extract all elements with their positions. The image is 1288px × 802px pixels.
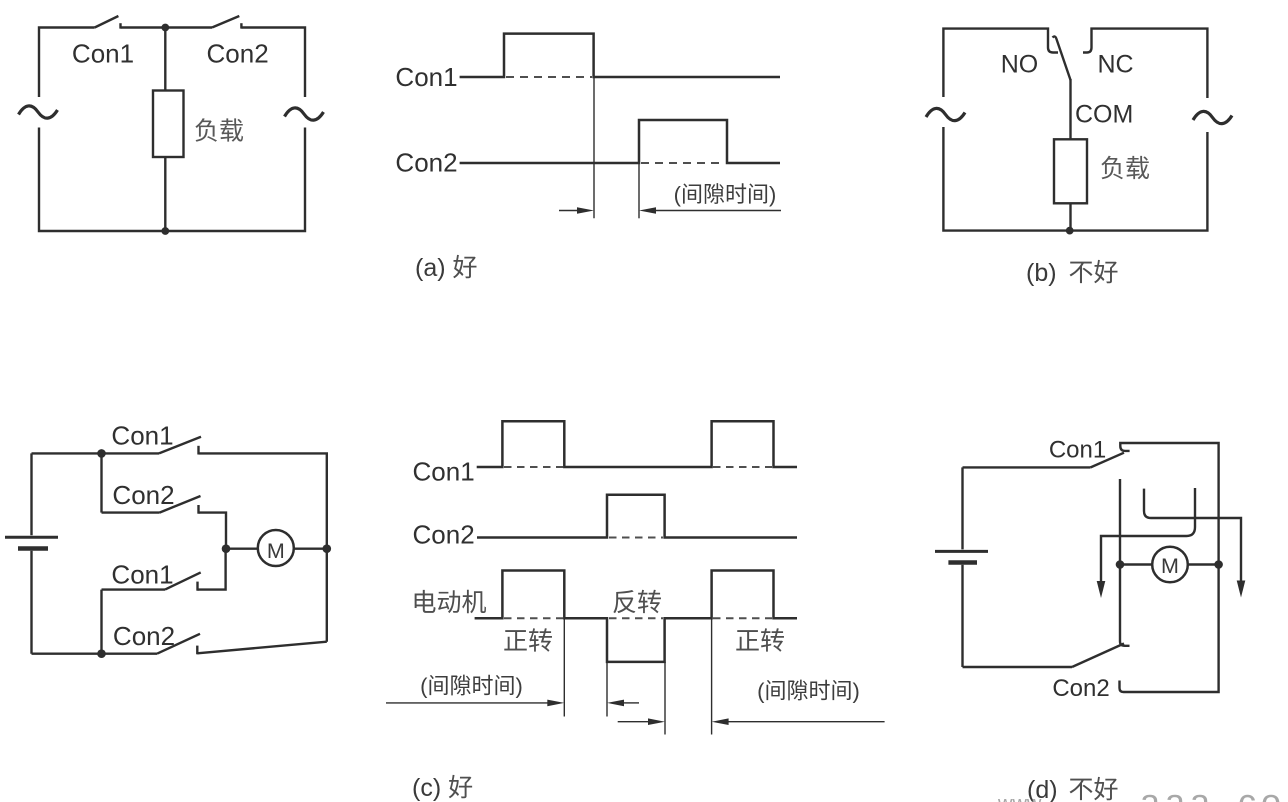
svg-text:电动机: 电动机 [411,589,486,617]
wire: Con2 lower slanted segment to right rail (c) [197,642,326,654]
wire: Con1 upper to right rail + right side down to motor (c) [199,453,327,548]
svg-text:Con1: Con1 [395,62,457,92]
arrowhead down left (d) [1097,581,1106,598]
switch Con1 lower (c) [165,572,201,590]
extension line at motor pulse1 fall (timing c) [563,618,565,716]
wire: crossing wire B - right U arm, curve, across left, down to left arrow (d) [1101,488,1195,582]
wire: motor to right rail (d) [1188,563,1219,565]
svg-text:NO: NO [1001,51,1039,79]
svg-text:Con2: Con2 [395,148,457,178]
svg-text:M: M [1161,554,1179,578]
svg-text:NC: NC [1097,51,1133,79]
svg-text:(间隙时间): (间隙时间) [757,679,860,704]
svg-text:正转: 正转 [503,628,553,656]
svg-text:(间隙时间): (间隙时间) [420,674,523,699]
AC source left (b) [926,108,965,120]
wire: right lower side + bottom (a) [165,128,305,232]
wire: top-left corner of loop (a) [39,28,95,98]
battery positive plate (d) [935,550,988,553]
dashed level inside Con2 pulse (timing a) [641,162,725,164]
wire: middle vertical upper (a) [164,28,166,91]
switch blade NO/NC changeover (b) [1053,36,1071,80]
wire: motor to right rail (c) [293,548,327,550]
wire: Con1 lower branch left part (c) [102,588,166,590]
dashed level over motor reverse pulse (timing c) [609,617,663,619]
battery negative plate (d) [948,560,977,565]
wire: battery top side + top rail (c) [32,453,102,535]
switch Con2 upper (c) [160,496,201,514]
switch Con2 lower (c) [157,634,200,655]
signal trace Con2 (timing c) [477,495,797,538]
wire: Con1 fixed contact hook + top wire + right rail (d) [1120,443,1218,565]
motor M circle (d) [1152,547,1188,583]
wire: Con2 fixed contact L + bottom-right wire + right rail lower (d) [1120,565,1219,693]
dimension arrow pointing left at x=639 + tail line (timing a) [639,207,781,214]
node: bottom junction (b) [1066,227,1074,235]
wire: COM vertical (b) [1069,79,1071,139]
switch Con1 upper (c) [159,437,201,455]
node: motor-left junction (c) [222,544,231,553]
svg-text:Con2: Con2 [413,520,475,550]
svg-text:com: com [1238,781,1288,802]
dashed level inside motor pulse 2 (timing c) [713,617,772,619]
signal trace motor 电动机 (timing c) [475,571,797,662]
extension line at Con1 fall (timing a) [593,77,595,218]
battery positive plate (c) [5,536,58,539]
wire: long middle vertical with bottom hook (d) [1120,479,1130,646]
svg-text:M: M [267,539,285,563]
dashed level inside Con1 pulse (timing a) [506,76,592,78]
extension line at reverse pulse start (timing c) [606,618,608,716]
dimension line row2 with right-pointing arrow at 665 (timing c) [618,718,665,725]
switch blade Con1 (d) [1091,453,1124,468]
node: bottom junction (a) [161,227,169,235]
svg-text:Con1: Con1 [72,39,134,69]
wire: branch vertical from top-left node (c) [100,453,102,512]
resistor 负载 load (a) [153,91,184,158]
AC source left (a) [19,106,58,118]
switch blade Con2 (d) [1072,644,1124,668]
extension line at reverse pulse end (timing c) [664,662,666,735]
battery negative plate (c) [18,546,48,551]
dimension arrow row1 left-pointing at 607 (timing c) [607,700,639,707]
wire: top-left corner + NO terminal (b) [943,29,1058,97]
svg-text:(间隙时间): (间隙时间) [674,182,777,207]
arrowhead down right (d) [1237,581,1246,598]
svg-text:Con1: Con1 [1049,437,1106,464]
signal trace Con1 (timing c) [477,421,797,467]
wire: crossing wire A - left U arm, across, down to right arrow (d) [1144,489,1241,581]
wire: top-right corner of loop (a) [241,28,305,98]
svg-text:(c) 好: (c) 好 [412,774,473,802]
svg-text:Con1: Con1 [413,457,475,487]
signal trace Con1 (timing a) [460,34,780,77]
wire: Con2 upper branch left part (c) [102,511,160,513]
svg-text:反转: 反转 [612,589,662,617]
node: top-left junction (c) [97,449,106,458]
signal trace Con2 (timing a) [460,120,780,163]
wire: left lower side + bottom (b) [943,127,1069,231]
svg-text:正转: 正转 [735,628,785,656]
svg-text:Con2: Con2 [1052,675,1109,702]
extension line at Con2 rise (timing a) [638,163,640,218]
wire: bottom rail to Con2 lower (c) [102,653,158,655]
svg-text:Con2: Con2 [207,39,269,69]
node: motor-left junction (d) [1116,560,1125,569]
wire: left lower side + bottom (a) [39,128,165,232]
dashed level inside motor pulse 1 (timing c) [504,617,563,619]
wire: battery bottom side + bottom rail (c) [32,551,102,654]
wire: battery top side + wire to Con1 (d) [963,467,1091,549]
wire: top-middle segment (a) [121,26,213,28]
wire: battery bottom side + bottom wire to Con2 (d) [963,565,1073,667]
svg-text:Con2: Con2 [112,480,174,510]
svg-text:负载: 负载 [1100,155,1150,183]
dimension line row1 with right-pointing arrow at 564 (timing c) [386,700,564,707]
wire: right lower side + bottom (b) [1070,132,1208,231]
wire: middle vertical lower (a) [164,157,166,231]
wire: Con1 lower to motor-left node (c) [198,549,226,590]
svg-text:(b) 不好: (b) 不好 [1026,259,1119,287]
extension line at motor pulse2 rise (timing c) [711,618,713,734]
wire: right rail lower segment (c) [326,549,328,642]
svg-text:aaa: aaa [1140,781,1215,802]
svg-text:Con1: Con1 [111,421,173,451]
wire: node to motor (c) [226,548,258,550]
AC source right (a) [285,108,324,120]
dimension arrow pointing right at x=594 (timing a) [559,207,594,214]
wire: NC terminal + top-right corner (b) [1083,29,1207,98]
svg-text:www: www [997,793,1042,802]
dimension line row2 with left-pointing arrow at 711.6 (timing c) [712,718,885,725]
resistor 负载 load (b) [1054,139,1087,203]
dashed level inside Con2 pulse (timing c) [609,537,663,539]
dashed level inside Con1 pulse 2 (timing c) [713,466,772,468]
node: top junction (a) [161,24,169,32]
svg-text:Con2: Con2 [113,621,175,651]
wire: resistor bottom to node (b) [1069,203,1071,230]
node: motor-right junction (d) [1214,560,1223,569]
wire: top rail to Con1 upper (c) [102,452,160,454]
AC source right (b) [1193,111,1232,123]
switch Con2 (circuit a) [212,16,241,29]
wire: Con2 upper to motor-left node (c) [199,513,227,549]
switch Con1 (circuit a) [95,16,121,29]
svg-text:Con1: Con1 [111,560,173,590]
svg-text:负载: 负载 [194,118,244,146]
node: motor-right junction (c) [323,544,332,553]
wire: node to motor (d) [1120,563,1153,565]
dashed level inside Con1 pulse 1 (timing c) [504,466,563,468]
svg-text:(a) 好: (a) 好 [415,254,478,282]
node: bottom-left junction (c) [97,649,106,658]
wire: branch vertical from bottom-left node (c) [100,590,102,654]
svg-text:COM: COM [1075,101,1133,129]
motor M circle (c) [258,530,294,566]
